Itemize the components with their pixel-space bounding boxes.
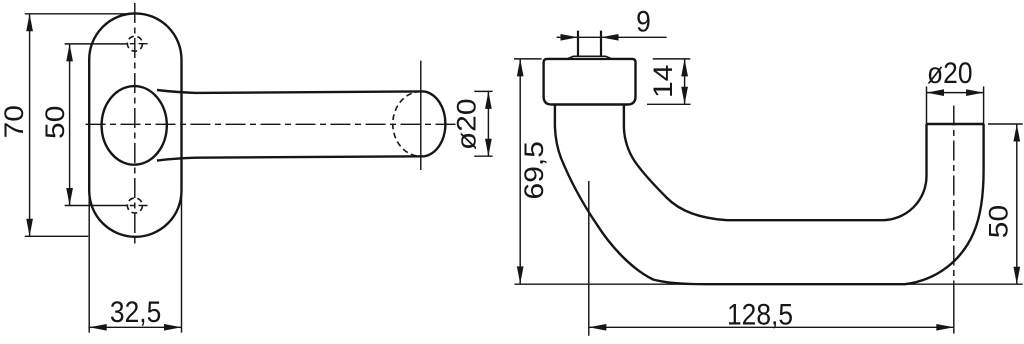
top screw hole center dashes bbox=[130, 43, 148, 45]
dimension 69,5: dimension line bbox=[519, 59, 521, 284]
oval vertical centerline bbox=[134, 3, 136, 247]
top screw hole (dashed) bbox=[127, 36, 142, 51]
dimension 50: arrowheads bbox=[66, 44, 73, 62]
dimension o20 (left view): dimension line bbox=[487, 91, 489, 156]
dimension 32,5: extension lines bbox=[88, 194, 90, 333]
dimension o20 (right view): arrowheads bbox=[927, 89, 945, 96]
grip end top edge bbox=[927, 123, 984, 125]
dimension 69,5: top extension line bbox=[514, 58, 542, 60]
dimension 14: arrowheads bbox=[681, 59, 688, 77]
dimension 50: extension lines bbox=[65, 43, 127, 45]
svg-text:14: 14 bbox=[647, 65, 677, 98]
dimension 50 (right view): top extension line bbox=[988, 123, 1023, 125]
dimension 69,5: arrowheads bbox=[517, 59, 524, 77]
bar end extension line vertical bbox=[420, 61, 422, 170]
handle outer contour (left + bottom + right end) bbox=[555, 105, 984, 285]
svg-text:9: 9 bbox=[636, 4, 651, 38]
baseline / bottom extension line bbox=[515, 283, 1023, 285]
dimension 50 (right view): dimension line bbox=[1016, 124, 1018, 284]
hub ellipse bbox=[102, 86, 167, 165]
dimension 70: arrowheads bbox=[26, 14, 33, 32]
dimension 9: right tail bbox=[601, 36, 667, 38]
dimension 14: dimension line bbox=[684, 59, 686, 104]
dimension 70: extension lines bbox=[25, 13, 134, 15]
dimension 32,5: arrowheads bbox=[89, 324, 107, 331]
svg-text:50: 50 bbox=[983, 205, 1013, 238]
handle inner contour (neck + grip top) bbox=[624, 105, 927, 221]
dimension 14: extension lines bbox=[653, 58, 691, 60]
dimension 9: left piece bbox=[557, 36, 578, 38]
dimension 50: dimension line bbox=[69, 44, 71, 206]
spindle square shaft sides bbox=[578, 31, 601, 57]
dimension 128,5: arrowheads bbox=[589, 324, 607, 331]
grip end centerline bbox=[953, 106, 955, 289]
dimension o20 (right view): extension lines bbox=[926, 86, 928, 124]
svg-text:69,5: 69,5 bbox=[519, 141, 549, 199]
svg-text:ø20: ø20 bbox=[451, 98, 481, 150]
svg-text:32,5: 32,5 bbox=[110, 295, 161, 329]
svg-text:128,5: 128,5 bbox=[727, 297, 793, 331]
lever bar bottom edge bbox=[157, 156, 425, 160]
svg-text:ø20: ø20 bbox=[927, 55, 972, 89]
bottom screw hole center dashes bbox=[130, 205, 148, 207]
dimension o20 (left view): arrowheads bbox=[485, 91, 492, 109]
svg-text:70: 70 bbox=[0, 105, 29, 138]
dimension o20 (left view): extension ticks bbox=[474, 90, 492, 92]
lever bar end cap arc bbox=[425, 91, 446, 156]
dimension 128,5: left extension line bbox=[588, 181, 590, 336]
grip end centerline solid extension bbox=[953, 288, 955, 334]
dimension 32,5: dimension line bbox=[89, 326, 181, 328]
dimension 50 (right view): arrowheads bbox=[1013, 124, 1020, 142]
spindle boss plate bbox=[567, 56, 612, 59]
bar end hidden ellipse (dashed) bbox=[393, 92, 421, 157]
svg-text:50: 50 bbox=[40, 106, 70, 139]
bottom screw hole (dashed) bbox=[127, 198, 142, 213]
dimension 9: through segment bbox=[578, 36, 601, 38]
dimension 70: dimension line bbox=[29, 14, 31, 237]
lever bar top edge bbox=[157, 90, 425, 93]
bar horizontal centerline bbox=[86, 123, 457, 125]
dimension 128,5: dimension line bbox=[589, 326, 954, 328]
dimension 9: arrowheads bbox=[561, 34, 579, 41]
hub block rounded rectangle bbox=[544, 59, 636, 105]
rosette oval outline bbox=[89, 13, 181, 236]
dimension o20 (right view): dimension line bbox=[927, 92, 984, 94]
